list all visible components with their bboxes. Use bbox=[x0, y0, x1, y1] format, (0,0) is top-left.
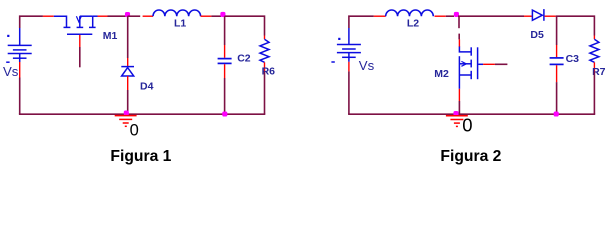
wire: M2 source to ground rail bbox=[457, 101, 459, 114]
wire: bottom ground rail (figure 2) bbox=[349, 113, 595, 115]
node A junction (M1/D4/L1) bbox=[125, 12, 130, 17]
wire: L1 right pin to node B bbox=[211, 15, 221, 17]
svg-text:C2: C2 bbox=[237, 53, 251, 65]
inductor L2 bbox=[374, 10, 446, 16]
wire: C2 bottom pin to ground rail bbox=[224, 78, 226, 114]
svg-text:M2: M2 bbox=[434, 68, 449, 80]
ground symbol (figure 1) bbox=[115, 116, 137, 127]
diode D5 (pointing right) bbox=[524, 9, 556, 21]
svg-text:M1: M1 bbox=[103, 30, 118, 42]
svg-text:D5: D5 bbox=[530, 29, 544, 41]
junction: D4 at ground rail bbox=[124, 111, 129, 116]
wire: Vs bottom lead down to ground rail bbox=[19, 78, 21, 115]
svg-text:C3: C3 bbox=[566, 53, 580, 65]
svg-text:L1: L1 bbox=[174, 18, 186, 30]
resistor R7 bbox=[590, 36, 599, 72]
wire: node B to R6 top corner bbox=[225, 16, 265, 35]
wire: L2 right pin to node C bbox=[446, 15, 454, 17]
wire: M2 gate stub (dangling) bbox=[495, 63, 508, 65]
svg-text:Figura 1: Figura 1 bbox=[110, 148, 171, 165]
wire: D5 cathode to R7 top corner bbox=[556, 16, 595, 35]
wire: bottom ground rail (figure 1) bbox=[20, 113, 265, 115]
voltage source Vs (battery, figure 2) bbox=[331, 28, 361, 71]
svg-text:R6: R6 bbox=[262, 65, 276, 77]
junction: C3 at ground rail bbox=[554, 111, 559, 116]
wire: node D down to C3 top pin bbox=[556, 16, 558, 45]
node B junction (L1/C2/R6) bbox=[220, 12, 225, 17]
wire: R7 bottom to ground rail corner bbox=[593, 72, 595, 115]
svg-text:D4: D4 bbox=[140, 80, 154, 92]
wire: M1 gate stub (dangling) bbox=[79, 47, 81, 67]
wire: Vs bottom lead down to ground rail bbox=[348, 71, 350, 114]
transistor M2 (power NMOS, vertical) bbox=[459, 39, 495, 101]
diode D4 (freewheeling, pointing up) bbox=[121, 58, 134, 90]
svg-text:Vs: Vs bbox=[3, 64, 19, 79]
wire: top-left from Vs to L2 left pin bbox=[349, 16, 374, 28]
inductor L1 bbox=[143, 10, 212, 16]
svg-text:0: 0 bbox=[130, 121, 139, 139]
junction: M2 source / ground at rail bbox=[453, 111, 458, 116]
ground symbol (figure 2) bbox=[446, 116, 468, 127]
resistor R6 bbox=[260, 36, 269, 72]
wire: node C to D5 anode bbox=[458, 15, 524, 17]
wire: C3 bottom pin to ground rail bbox=[556, 82, 558, 114]
wire: node B down to C2 top pin bbox=[224, 16, 226, 45]
wire: top-left from Vs to M1 drain pin bbox=[20, 16, 43, 28]
wire: R6 bottom to ground rail corner bbox=[264, 72, 266, 115]
junction: C2 at ground rail bbox=[222, 111, 227, 116]
capacitor C3 bbox=[550, 45, 564, 82]
svg-text:Figura 2: Figura 2 bbox=[440, 148, 501, 165]
svg-text:L2: L2 bbox=[407, 18, 419, 30]
svg-text:0: 0 bbox=[462, 114, 472, 135]
svg-text:Vs: Vs bbox=[359, 58, 375, 73]
wire: node A down to D4 cathode bbox=[127, 16, 129, 58]
node C junction (L2/M2/D5) bbox=[454, 12, 459, 17]
wire: node C down to M2 drain pin bbox=[458, 16, 460, 28]
transistor M1 (power NMOS, horizontal) bbox=[43, 16, 108, 47]
wire: node A to L1 left pin bbox=[128, 15, 141, 17]
capacitor C2 bbox=[218, 45, 232, 78]
wire: M1 source to node A bbox=[108, 15, 126, 17]
voltage source Vs (battery, figure 1) bbox=[6, 28, 32, 78]
wire: D4 anode down to ground rail bbox=[127, 90, 129, 114]
